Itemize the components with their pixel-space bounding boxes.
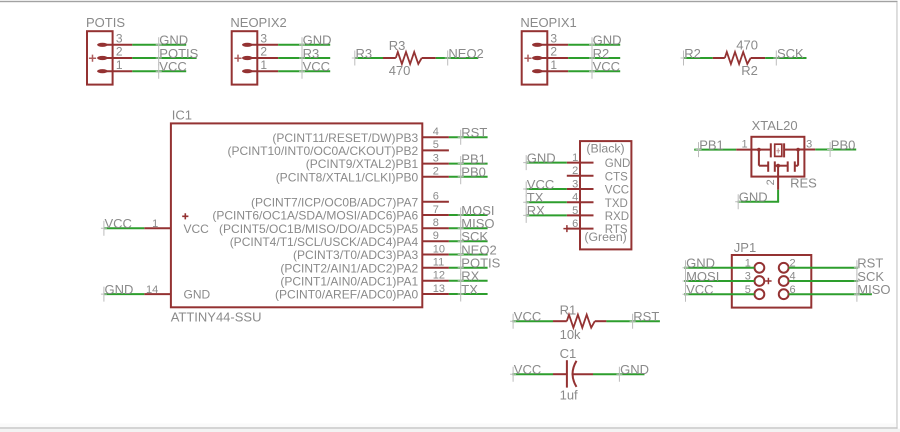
svg-text:(PCINT3/T0/ADC3)PA3: (PCINT3/T0/ADC3)PA3 bbox=[293, 248, 418, 262]
IC1 pin 9 name PA4 bbox=[230, 235, 419, 249]
IC1 pin number 9 bbox=[433, 230, 439, 242]
net label R2 bbox=[681, 46, 701, 66]
NEOPIX2 pin 3 lead bbox=[242, 43, 278, 47]
net label PB0 bbox=[458, 165, 486, 185]
XTAL20 pin 1 lead bbox=[736, 148, 761, 152]
NEOPIX1 pin number 2 bbox=[550, 45, 557, 59]
FTDI pin name VCC bbox=[605, 185, 629, 197]
svg-text:NEO2: NEO2 bbox=[448, 46, 483, 61]
svg-text:5: 5 bbox=[572, 205, 578, 217]
wire net MISO from IC1 pin 8 bbox=[449, 227, 488, 229]
svg-text:RES: RES bbox=[790, 176, 817, 191]
POTIS pin number 1 bbox=[116, 58, 123, 72]
JP1 pin number 2 bbox=[790, 257, 796, 269]
svg-text:R2: R2 bbox=[684, 46, 701, 61]
IC1 pin number 5 bbox=[433, 139, 439, 151]
IC1 pin 13 lead bbox=[422, 293, 449, 295]
wire net GND (right of C1) bbox=[593, 373, 645, 375]
net label NEO2 bbox=[445, 46, 484, 66]
wire net SCK from IC1 pin 9 bbox=[449, 240, 488, 242]
svg-text:470: 470 bbox=[736, 37, 758, 52]
net label R2 bbox=[589, 46, 609, 66]
svg-text:XTAL20: XTAL20 bbox=[752, 118, 798, 133]
svg-text:4: 4 bbox=[433, 126, 439, 138]
IC1 pin number 12 bbox=[433, 270, 445, 282]
svg-text:GND: GND bbox=[605, 158, 631, 170]
FTDI pin name RTS bbox=[605, 224, 628, 236]
svg-text:GND: GND bbox=[739, 190, 768, 205]
connector JP1 (ISP header) bbox=[732, 240, 812, 308]
FTDI pin name GND bbox=[605, 158, 631, 170]
resonator XTAL20 bbox=[751, 118, 817, 191]
svg-text:ATTINY44-SSU: ATTINY44-SSU bbox=[171, 309, 262, 324]
svg-text:1: 1 bbox=[116, 58, 123, 72]
IC1 pin 12 name PA1 bbox=[280, 274, 418, 288]
wire net R3 (left of R3) bbox=[355, 57, 384, 59]
net label NEO2 bbox=[458, 242, 497, 262]
net label MOSI bbox=[458, 203, 495, 223]
svg-text:3: 3 bbox=[806, 138, 812, 150]
net label R3 bbox=[299, 46, 319, 66]
net label VCC bbox=[683, 282, 714, 302]
svg-text:3: 3 bbox=[572, 178, 578, 190]
JP1 pin 2 circle bbox=[779, 263, 789, 273]
IC1 pin 3 lead bbox=[422, 163, 449, 165]
net label R3 bbox=[352, 46, 372, 66]
svg-text:1: 1 bbox=[260, 58, 267, 72]
IC1 pin 6 lead bbox=[422, 201, 449, 203]
net label GND bbox=[616, 362, 649, 382]
svg-text:4: 4 bbox=[572, 192, 578, 204]
svg-text:470: 470 bbox=[389, 63, 411, 78]
svg-text:GND: GND bbox=[105, 282, 134, 297]
resistor R3 bbox=[383, 52, 436, 64]
NEOPIX1 pin number 1 bbox=[550, 58, 557, 72]
POTIS pin 2 lead bbox=[97, 56, 132, 60]
ref label C1 bbox=[560, 346, 577, 361]
net label PB1 bbox=[458, 151, 486, 171]
FTDI pin number 6 bbox=[572, 218, 578, 230]
svg-text:NEOPIX1: NEOPIX1 bbox=[520, 15, 576, 30]
value label 470 bbox=[736, 37, 758, 52]
wire net VCC from POTIS pin 1 bbox=[132, 70, 186, 72]
wire net PB0 from IC1 pin 2 bbox=[449, 176, 488, 178]
resistor R2 bbox=[713, 52, 765, 64]
net label RX bbox=[458, 269, 480, 289]
net label GND bbox=[523, 150, 555, 170]
POTIS pin 3 lead bbox=[97, 43, 132, 47]
JP1 pin 4 circle bbox=[779, 276, 789, 286]
wire net MISO from JP1 pin 6 bbox=[789, 293, 872, 295]
FTDI pin number 2 bbox=[572, 165, 578, 177]
net label POTIS bbox=[458, 256, 501, 276]
net label GND bbox=[683, 256, 715, 276]
JP1 pin 1 circle bbox=[755, 263, 765, 273]
net label GND bbox=[156, 33, 188, 53]
svg-text:JP1: JP1 bbox=[734, 240, 756, 255]
XTAL20 pin 3 lead bbox=[798, 149, 816, 151]
XTAL20 pin number 3 bbox=[806, 138, 812, 150]
svg-text:7: 7 bbox=[433, 204, 439, 216]
net label MISO bbox=[458, 216, 495, 236]
NEOPIX2 pin 1 lead bbox=[242, 69, 278, 73]
svg-text:(PCINT4/T1/SCL/USCK/ADC4)PA4: (PCINT4/T1/SCL/USCK/ADC4)PA4 bbox=[230, 235, 419, 249]
POTIS pin 1 lead bbox=[97, 69, 132, 73]
svg-text:VCC: VCC bbox=[686, 282, 713, 297]
net label VCC bbox=[299, 59, 330, 79]
JP1 pin number 5 bbox=[745, 284, 751, 296]
svg-text:MISO: MISO bbox=[857, 282, 890, 297]
net label TX bbox=[458, 282, 479, 302]
IC1 pin 4 lead bbox=[422, 136, 449, 138]
JP1 pin number 4 bbox=[790, 271, 796, 283]
wire net GND to IC1 pin 14 bbox=[104, 293, 145, 295]
svg-text:1: 1 bbox=[741, 138, 747, 150]
wire net RX from IC1 pin 12 bbox=[449, 280, 488, 282]
IC1 pin 14 (GND) lead bbox=[144, 293, 171, 295]
IC1 pin 6 name PA7 bbox=[251, 195, 418, 209]
net label GND bbox=[589, 33, 621, 53]
svg-text:2: 2 bbox=[550, 45, 557, 59]
net label TX bbox=[523, 190, 544, 210]
net label RST bbox=[854, 256, 883, 276]
IC1 pin 4 name PB3 bbox=[272, 131, 418, 145]
NEOPIX2 pin number 1 bbox=[260, 58, 267, 72]
svg-text:(PCINT6/OC1A/SDA/MOSI/ADC6)PA6: (PCINT6/OC1A/SDA/MOSI/ADC6)PA6 bbox=[212, 209, 418, 223]
IC1 pin number 7 bbox=[433, 204, 439, 216]
wire net R2 (left of R2) bbox=[684, 57, 713, 59]
svg-text:RTS: RTS bbox=[605, 224, 628, 236]
NEOPIX1 pin number 3 bbox=[550, 32, 557, 46]
svg-text:VCC: VCC bbox=[105, 216, 132, 231]
connector POTIS bbox=[86, 15, 125, 84]
net label MOSI bbox=[683, 269, 720, 289]
IC1 pin 5 lead bbox=[422, 149, 449, 151]
svg-text:NEOPIX2: NEOPIX2 bbox=[230, 15, 286, 30]
svg-text:1: 1 bbox=[152, 218, 158, 230]
svg-text:(PCINT7/ICP/OC0B/ADC7)PA7: (PCINT7/ICP/OC0B/ADC7)PA7 bbox=[251, 195, 418, 209]
svg-text:3: 3 bbox=[550, 32, 557, 46]
svg-text:VCC: VCC bbox=[593, 59, 620, 74]
svg-text:14: 14 bbox=[146, 284, 158, 296]
svg-text:(PCINT9/XTAL2)PB1: (PCINT9/XTAL2)PB1 bbox=[306, 157, 419, 171]
svg-text:2: 2 bbox=[433, 166, 439, 178]
IC1 pin 7 lead bbox=[422, 214, 449, 216]
wire net SCK (right of R2) bbox=[765, 57, 806, 59]
net label VCC bbox=[101, 216, 132, 236]
JP1 pin number 6 bbox=[790, 284, 796, 296]
svg-text:6: 6 bbox=[433, 191, 439, 203]
IC1 pin number 2 bbox=[433, 166, 439, 178]
svg-text:10k: 10k bbox=[560, 327, 581, 342]
net label PB0 bbox=[827, 137, 855, 157]
XTAL20 pin 2 lead bbox=[777, 166, 779, 190]
svg-text:(PCINT8/XTAL1/CLKI)PB0: (PCINT8/XTAL1/CLKI)PB0 bbox=[276, 170, 419, 184]
wire net NEO2 from IC1 pin 10 bbox=[449, 254, 488, 256]
svg-text:R2: R2 bbox=[741, 63, 758, 78]
svg-text:VCC: VCC bbox=[605, 185, 629, 197]
IC1 pin 2 name PB0 bbox=[276, 170, 419, 184]
svg-text:1: 1 bbox=[550, 58, 557, 72]
svg-text:(PCINT1/AIN0/ADC1)PA1: (PCINT1/AIN0/ADC1)PA1 bbox=[280, 274, 418, 288]
wire net PB1 to XTAL20 pin 1 bbox=[694, 149, 736, 151]
crystal element of XTAL20 bbox=[759, 143, 800, 157]
capacitor C1 bbox=[553, 360, 593, 387]
svg-text:2: 2 bbox=[572, 165, 578, 177]
wire net GND from NEOPIX1 pin 3 bbox=[568, 44, 620, 46]
IC1 pin number 11 bbox=[433, 257, 444, 269]
IC1 pin 13 name PA0 bbox=[275, 288, 418, 302]
wire net RST from JP1 pin 2 bbox=[789, 267, 859, 269]
net label SCK bbox=[854, 269, 884, 289]
wire net GND to FTDI pin 1 bbox=[526, 162, 567, 164]
XTAL20 pin number 2 bbox=[765, 179, 777, 185]
value label 1uf bbox=[560, 388, 578, 403]
wire net TX to FTDI pin 4 bbox=[526, 201, 567, 203]
XTAL20 internal capacitors to pin 2 bbox=[759, 150, 798, 172]
wire net VCC from NEOPIX1 pin 1 bbox=[568, 70, 620, 72]
svg-text:TX: TX bbox=[461, 282, 478, 297]
net label MISO bbox=[854, 282, 891, 302]
svg-text:SCK: SCK bbox=[777, 46, 804, 61]
net label SCK bbox=[458, 229, 489, 249]
svg-text:POTIS: POTIS bbox=[86, 15, 125, 30]
wire net VCC to JP1 pin 5 bbox=[684, 293, 754, 295]
svg-text:(PCINT11/RESET/DW)PB3: (PCINT11/RESET/DW)PB3 bbox=[272, 131, 418, 145]
NEOPIX2 pin number 3 bbox=[260, 32, 267, 46]
IC1 pin number 4 bbox=[433, 126, 439, 138]
wire net PB0 from XTAL20 pin 3 bbox=[815, 149, 856, 151]
svg-text:CTS: CTS bbox=[605, 171, 628, 183]
FTDI pin 6 (RTS) lead bbox=[567, 228, 594, 230]
IC1 pin number 13 bbox=[433, 283, 445, 295]
svg-text:VCC: VCC bbox=[514, 362, 541, 377]
FTDI pin number 4 bbox=[572, 192, 578, 204]
svg-text:VCC: VCC bbox=[514, 309, 541, 324]
svg-text:(PCINT0/AREF/ADC0)PA0: (PCINT0/AREF/ADC0)PA0 bbox=[275, 288, 418, 302]
value label 470 bbox=[389, 63, 411, 78]
IC1 pin 3 name PB1 bbox=[306, 157, 419, 171]
FTDI pin name TXD bbox=[605, 198, 628, 210]
svg-text:6: 6 bbox=[572, 218, 578, 230]
IC1 pin 8 lead bbox=[422, 227, 449, 229]
svg-text:(PCINT5/OC1B/MISO/DO/ADC5)PA5: (PCINT5/OC1B/MISO/DO/ADC5)PA5 bbox=[219, 222, 418, 236]
FTDI pin 3 (VCC) lead bbox=[567, 188, 594, 190]
wire net NEO2 (right of R3) bbox=[436, 57, 479, 59]
svg-text:3: 3 bbox=[116, 32, 123, 46]
svg-text:11: 11 bbox=[433, 257, 444, 269]
svg-text:PB0: PB0 bbox=[461, 165, 486, 180]
svg-text:2: 2 bbox=[260, 45, 267, 59]
net label GND bbox=[299, 33, 331, 53]
svg-text:9: 9 bbox=[433, 230, 439, 242]
IC1 pin 11 name PA2 bbox=[280, 261, 418, 275]
resistor R1 bbox=[553, 315, 606, 328]
IC IC1 ATTINY44-SSU bbox=[171, 108, 423, 325]
net label VCC bbox=[589, 59, 620, 79]
wire net RST from IC1 pin 4 bbox=[449, 136, 488, 138]
JP1 pin 3 circle bbox=[755, 276, 765, 286]
svg-text:VCC: VCC bbox=[159, 59, 186, 74]
wire net GND from POTIS pin 3 bbox=[132, 44, 186, 46]
svg-text:GND: GND bbox=[184, 288, 211, 302]
svg-text:PB1: PB1 bbox=[699, 137, 724, 152]
svg-text:(PCINT10/INT0/OC0A/CKOUT)PB2: (PCINT10/INT0/OC0A/CKOUT)PB2 bbox=[227, 144, 418, 158]
svg-text:RST: RST bbox=[461, 125, 487, 140]
IC1 pin 2 lead bbox=[422, 176, 449, 178]
wire net R3 from NEOPIX2 pin 2 bbox=[278, 57, 330, 59]
IC1 pin number 6 bbox=[433, 191, 439, 203]
IC1 pin 10 lead bbox=[422, 254, 449, 256]
wire net MOSI to JP1 pin 3 bbox=[684, 280, 754, 282]
IC1 pin 10 name PA3 bbox=[293, 248, 418, 262]
FTDI pin name RXD bbox=[605, 211, 629, 223]
svg-text:RST: RST bbox=[633, 309, 659, 324]
JP1 pin 3 stub marker bbox=[765, 278, 771, 284]
value label 10k bbox=[560, 327, 581, 342]
ref label R2 bbox=[741, 63, 758, 78]
net label GND bbox=[735, 190, 767, 210]
wire net POTIS from POTIS pin 2 bbox=[132, 57, 196, 59]
net label VCC bbox=[510, 309, 541, 329]
wire net GND to JP1 pin 1 bbox=[684, 267, 754, 269]
svg-text:IC1: IC1 bbox=[172, 108, 192, 123]
svg-text:3: 3 bbox=[260, 32, 267, 46]
IC1 pin 12 lead bbox=[422, 280, 449, 282]
FTDI pin name CTS bbox=[605, 171, 628, 183]
POTIS pin number 3 bbox=[116, 32, 123, 46]
wire net VCC to IC1 pin 1 bbox=[104, 227, 145, 229]
svg-text:5: 5 bbox=[433, 139, 439, 151]
svg-text:10: 10 bbox=[433, 243, 445, 255]
IC1 pin number 3 bbox=[433, 152, 439, 164]
NEOPIX2 pin number 2 bbox=[260, 45, 267, 59]
svg-text:13: 13 bbox=[433, 283, 445, 295]
svg-text:2: 2 bbox=[765, 179, 777, 185]
svg-text:1uf: 1uf bbox=[560, 388, 578, 403]
FTDI pin 5 (RXD) lead bbox=[567, 214, 594, 216]
wire net GND from XTAL20 pin 2 bbox=[738, 190, 780, 202]
svg-text:(PCINT2/AIN1/ADC2)PA2: (PCINT2/AIN1/ADC2)PA2 bbox=[280, 261, 418, 275]
wire net TX from IC1 pin 13 bbox=[449, 293, 488, 295]
wire net MOSI from IC1 pin 7 bbox=[449, 214, 488, 216]
JP1 pin 5 circle bbox=[755, 289, 765, 299]
wire net VCC (left of C1) bbox=[512, 373, 553, 375]
svg-text:R3: R3 bbox=[356, 46, 373, 61]
svg-text:TXD: TXD bbox=[605, 198, 628, 210]
net label VCC bbox=[510, 362, 541, 382]
wire net RST (right of R1) bbox=[606, 320, 660, 322]
net label POTIS bbox=[156, 46, 199, 66]
FTDI pin 4 (TXD) lead bbox=[567, 201, 594, 203]
wire net VCC from NEOPIX2 pin 1 bbox=[278, 70, 330, 72]
IC1 pin 11 lead bbox=[422, 267, 449, 269]
wire net VCC to FTDI pin 3 bbox=[526, 188, 567, 190]
svg-text:RX: RX bbox=[527, 203, 545, 218]
svg-text:(Black): (Black) bbox=[586, 141, 624, 155]
wire net SCK from JP1 pin 4 bbox=[789, 280, 859, 282]
svg-text:VCC: VCC bbox=[303, 59, 330, 74]
IC1 pin number 8 bbox=[433, 217, 439, 229]
XTAL20 pin number 1 bbox=[741, 138, 747, 150]
net label RX bbox=[523, 203, 545, 223]
NEOPIX1 pin 3 lead bbox=[532, 43, 568, 47]
value label R3 bbox=[389, 38, 406, 53]
svg-text:3: 3 bbox=[433, 152, 439, 164]
net label RST bbox=[458, 125, 488, 145]
value label R1 bbox=[560, 303, 577, 318]
net label VCC bbox=[523, 177, 554, 197]
svg-text:RXD: RXD bbox=[605, 211, 629, 223]
svg-text:8: 8 bbox=[433, 217, 439, 229]
svg-text:C1: C1 bbox=[560, 346, 577, 361]
net label PB1 bbox=[696, 137, 724, 157]
FTDI pin number 3 bbox=[572, 178, 578, 190]
IC1 pin 8 name PA5 bbox=[219, 222, 418, 236]
JP1 pin 6 circle bbox=[779, 289, 789, 299]
net label VCC bbox=[156, 59, 187, 79]
svg-text:R3: R3 bbox=[389, 38, 406, 53]
svg-text:R1: R1 bbox=[560, 303, 577, 318]
wire net POTIS from IC1 pin 11 bbox=[449, 267, 488, 269]
POTIS pin number 2 bbox=[116, 45, 123, 59]
net label RST bbox=[630, 309, 660, 329]
svg-text:VCC: VCC bbox=[184, 222, 210, 236]
svg-text:12: 12 bbox=[433, 270, 445, 282]
NEOPIX1 pin 1 lead bbox=[532, 69, 568, 73]
IC1 pin 7 name PA6 bbox=[212, 209, 418, 223]
IC1 pin 9 lead bbox=[422, 240, 449, 242]
connector NEOPIX2 bbox=[230, 15, 286, 84]
svg-text:1: 1 bbox=[572, 152, 578, 164]
IC1 pin number 10 bbox=[433, 243, 445, 255]
IC1 pin 1 (VCC) lead bbox=[144, 227, 171, 229]
connector FTDI (serial header) bbox=[580, 141, 631, 249]
FTDI pin 6 unconnected marker bbox=[563, 225, 570, 232]
FTDI pin 1 (GND) lead bbox=[567, 162, 594, 164]
FTDI pin 2 (CTS) lead bbox=[567, 175, 594, 177]
wire net GND from NEOPIX2 pin 3 bbox=[278, 44, 330, 46]
svg-text:GND: GND bbox=[620, 362, 649, 377]
net label SCK bbox=[773, 46, 804, 66]
JP1 pin number 3 bbox=[745, 271, 751, 283]
svg-text:GND: GND bbox=[527, 150, 556, 165]
net label GND bbox=[101, 282, 133, 302]
NEOPIX2 pin 2 lead bbox=[242, 56, 278, 60]
FTDI pin number 1 bbox=[572, 152, 578, 164]
wire net VCC (left of R1) bbox=[512, 320, 553, 322]
wire net R2 from NEOPIX1 pin 2 bbox=[568, 57, 620, 59]
FTDI pin number 5 bbox=[572, 205, 578, 217]
wire net PB1 from IC1 pin 3 bbox=[449, 163, 488, 165]
IC1 pin number 14 bbox=[146, 284, 158, 296]
wire net RX to FTDI pin 5 bbox=[526, 214, 567, 216]
IC1 pin number 1 bbox=[152, 218, 158, 230]
svg-text:PB0: PB0 bbox=[831, 137, 856, 152]
JP1 pin number 1 bbox=[745, 257, 751, 269]
svg-text:2: 2 bbox=[116, 45, 123, 59]
connector NEOPIX1 bbox=[520, 15, 576, 84]
NEOPIX1 pin 2 lead bbox=[532, 56, 568, 60]
IC1 pin 5 name PB2 bbox=[227, 144, 418, 158]
